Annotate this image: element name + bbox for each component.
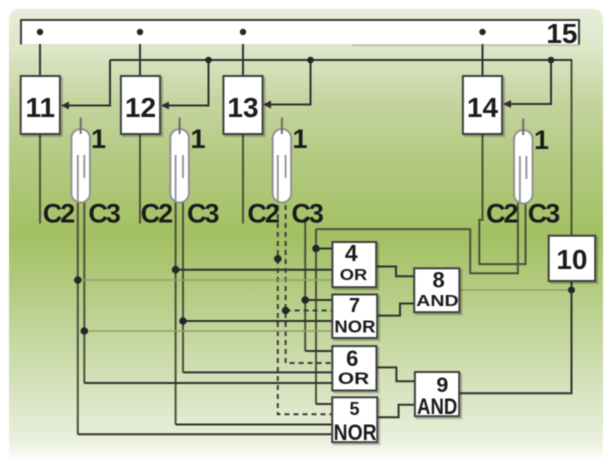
svg-text:8: 8 xyxy=(432,268,444,293)
svg-text:C2: C2 xyxy=(486,199,517,229)
svg-text:AND: AND xyxy=(416,293,458,310)
svg-text:1: 1 xyxy=(91,124,106,154)
svg-text:OR: OR xyxy=(338,369,369,388)
svg-text:C3: C3 xyxy=(88,199,120,229)
svg-text:NOR: NOR xyxy=(334,420,377,445)
svg-text:7: 7 xyxy=(349,295,360,317)
svg-text:NOR: NOR xyxy=(334,317,375,337)
svg-text:4: 4 xyxy=(345,240,358,266)
svg-text:C3: C3 xyxy=(291,199,323,229)
svg-text:10: 10 xyxy=(556,244,587,275)
svg-text:11: 11 xyxy=(25,92,55,123)
svg-text:5: 5 xyxy=(349,399,359,419)
svg-text:13: 13 xyxy=(227,92,258,123)
svg-text:C2: C2 xyxy=(247,199,278,229)
svg-text:AND: AND xyxy=(417,394,457,419)
svg-text:14: 14 xyxy=(467,92,499,123)
svg-text:C3: C3 xyxy=(528,199,560,229)
svg-text:C2: C2 xyxy=(141,199,172,229)
svg-text:OR: OR xyxy=(340,267,368,284)
svg-text:1: 1 xyxy=(293,124,308,154)
svg-text:1: 1 xyxy=(191,124,206,154)
svg-text:C3: C3 xyxy=(187,199,219,229)
svg-text:6: 6 xyxy=(346,346,358,371)
svg-text:12: 12 xyxy=(125,92,156,123)
svg-text:1: 1 xyxy=(534,125,549,155)
svg-text:C2: C2 xyxy=(43,199,74,229)
svg-text:15: 15 xyxy=(546,18,577,49)
